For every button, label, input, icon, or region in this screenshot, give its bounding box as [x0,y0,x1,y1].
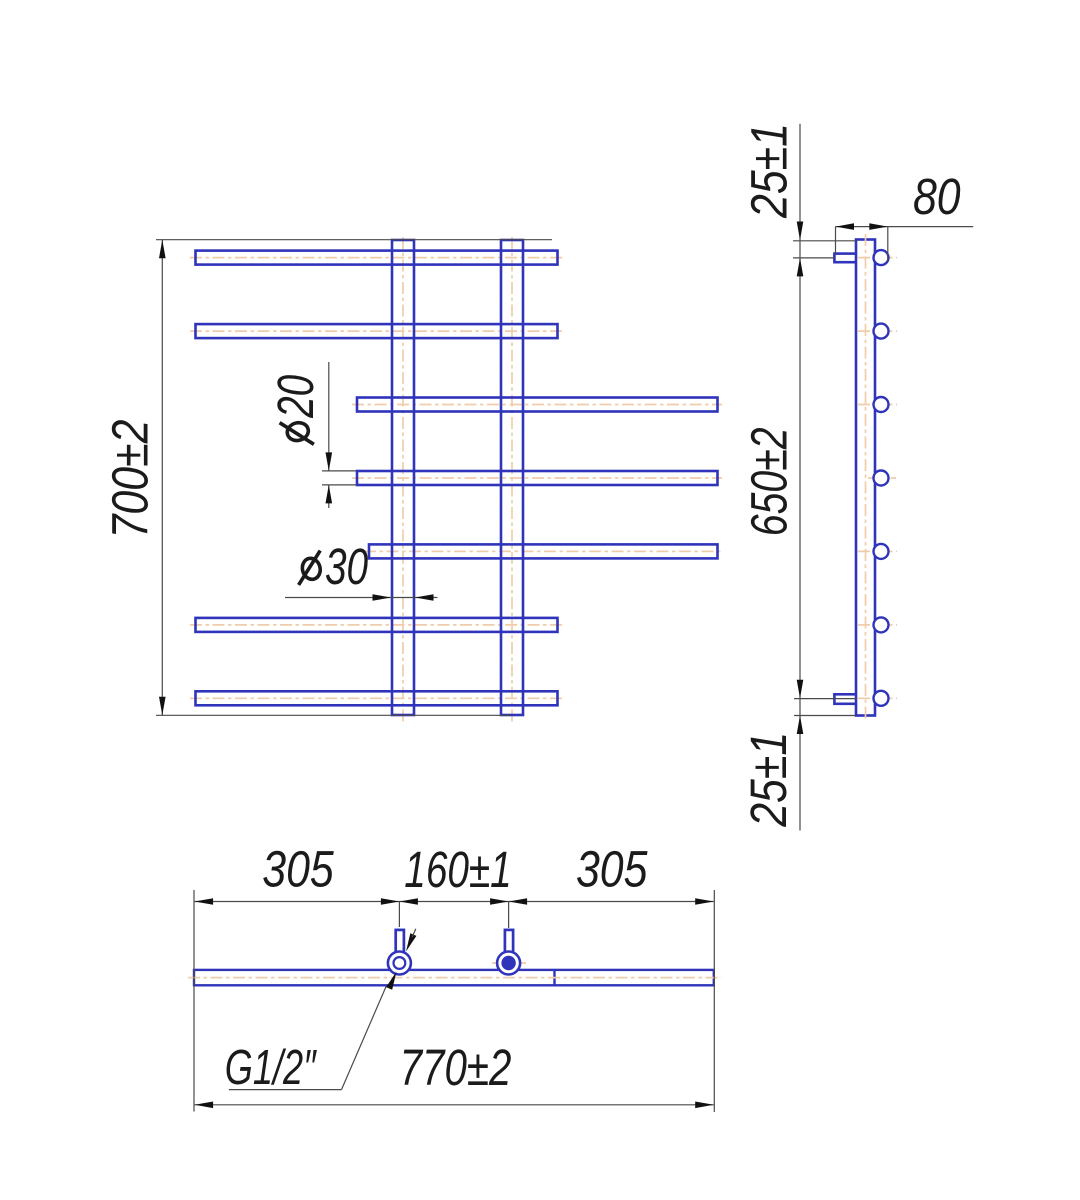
svg-text:80: 80 [913,167,961,224]
svg-text:650±2: 650±2 [741,427,798,536]
svg-text:160±1: 160±1 [404,841,511,898]
svg-text:20: 20 [267,375,324,419]
svg-text:305: 305 [576,840,648,897]
svg-text:770±2: 770±2 [400,1038,512,1096]
svg-text:25±1: 25±1 [740,123,797,219]
svg-text:700±2: 700±2 [101,420,158,539]
svg-text:G1/2″: G1/2″ [225,1041,318,1096]
svg-text:25±1: 25±1 [739,732,796,828]
svg-text:305: 305 [262,840,334,897]
svg-text:30: 30 [325,538,368,595]
